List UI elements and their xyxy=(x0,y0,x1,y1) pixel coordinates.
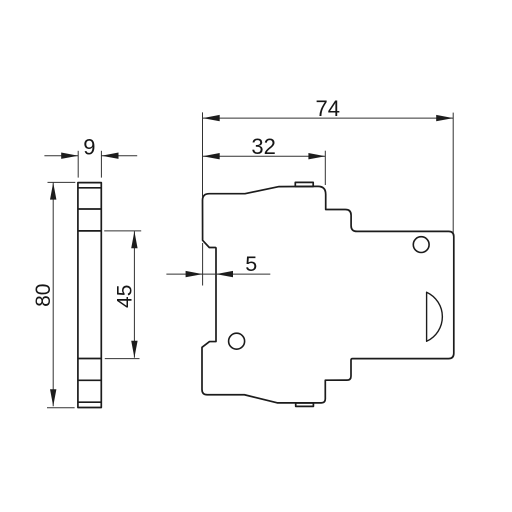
upper-right hole xyxy=(413,237,429,253)
dimension 80 (height of end view) xyxy=(32,182,75,407)
dimension 9 (width of end view) xyxy=(44,135,137,178)
svg-text:5: 5 xyxy=(245,252,257,276)
left view: housing segment lines xyxy=(78,188,101,402)
dimension 74 (overall depth) xyxy=(203,96,454,234)
right view: side profile outline xyxy=(202,186,454,402)
dimension 32 (front section depth) xyxy=(203,134,326,185)
D-shaped recess xyxy=(427,292,443,341)
top mounting tab xyxy=(295,182,313,186)
dimension 45 (middle section height) xyxy=(104,231,141,359)
bottom mounting tab xyxy=(296,403,314,407)
dimension 5 (ledge offset) xyxy=(166,243,270,286)
svg-text:74: 74 xyxy=(315,96,339,121)
left view: end profile body outline xyxy=(78,183,101,408)
lower-left hole xyxy=(229,333,245,349)
svg-text:9: 9 xyxy=(83,135,95,160)
svg-text:80: 80 xyxy=(32,284,55,307)
svg-text:45: 45 xyxy=(113,285,136,308)
svg-text:32: 32 xyxy=(251,134,275,159)
